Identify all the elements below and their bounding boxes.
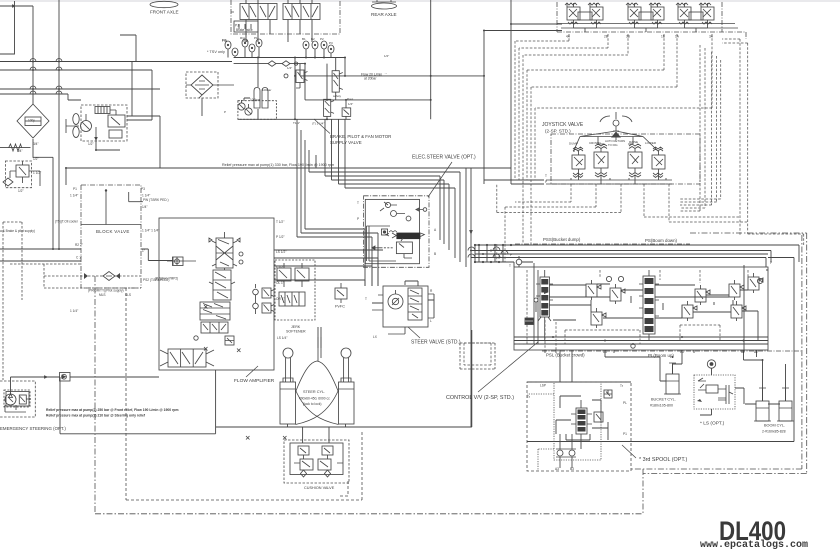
- wire filter drop: [120, 35, 202, 116]
- bus wire y89: [0, 88, 160, 90]
- enclosure elec steer valve dash-dot: [364, 196, 429, 267]
- hose CV interior pilot dashed: [516, 270, 748, 350]
- control valve body outline: [514, 267, 768, 350]
- hose right long drops: [722, 39, 804, 245]
- svg-text:DUMP: DUMP: [569, 142, 578, 146]
- arrow on front axle wire: [12, 4, 17, 8]
- CV relief valve at 731,305: [731, 305, 742, 318]
- enclosure outer dash-dot B bottom: [95, 276, 643, 514]
- CV relief valve at 729,284: [729, 284, 740, 297]
- brake valve block right: [283, 4, 320, 20]
- wire pilot bus y262: [475, 262, 514, 267]
- svg-text:2B: 2B: [604, 35, 608, 39]
- enclosure 3rd spool dashed: [527, 382, 631, 471]
- remote pilot valve pair at x=628: [626, 3, 664, 32]
- enclosure emergency steering dashed: [0, 381, 35, 417]
- svg-text:* TSV only: * TSV only: [207, 50, 225, 54]
- wire pilot bus y257.5: [471, 258, 766, 268]
- svg-text:LS 1/2": LS 1/2": [276, 250, 286, 254]
- hose left drop bundle to joystick bus: [515, 41, 535, 244]
- wire 3rd spool interior: [556, 390, 608, 449]
- bus wire y61.5: [0, 61, 232, 63]
- elec steer lower box: [396, 242, 412, 254]
- flow amp priority spool: [216, 238, 233, 268]
- svg-text:at 20bar: at 20bar: [364, 77, 377, 81]
- wire filter to orifice y147.6: [0, 139, 53, 249]
- leader steer valve std label: [408, 327, 420, 338]
- CV relief valve at 586,284: [586, 284, 597, 297]
- svg-text:CROWD: CROWD: [589, 141, 601, 145]
- svg-text:PSS(Bucket dump): PSS(Bucket dump): [543, 237, 581, 242]
- svg-text:OL 1": OL 1": [276, 281, 284, 285]
- joystick linkage bars: [574, 131, 657, 150]
- wire relief column: [327, 58, 346, 120]
- elec steer proportional spool dark: [396, 233, 420, 240]
- svg-text:FLOW AMPLIFIER: FLOW AMPLIFIER: [234, 378, 275, 384]
- wire aux line y366: [470, 366, 627, 382]
- svg-text:FRONT AXLE: FRONT AXLE: [150, 10, 179, 15]
- svg-text:F/A: F/A: [222, 38, 227, 42]
- svg-text:3/4": 3/4": [33, 142, 39, 146]
- svg-text:1": 1": [142, 249, 145, 253]
- svg-text:B2: B2: [741, 350, 745, 354]
- joystick handle: [600, 112, 632, 122]
- svg-text:STEER CYL.: STEER CYL.: [303, 390, 325, 394]
- bucket cylinder: [666, 374, 679, 394]
- LS opt valve: [707, 360, 715, 368]
- svg-text:A2: A2: [754, 350, 758, 354]
- enclosure LS opt dotted: [694, 375, 735, 409]
- arrow emergency line: [44, 375, 49, 379]
- CV inlet circles: [516, 259, 522, 265]
- junction dots main buses: [32, 23, 764, 382]
- emergency steering pump: [5, 394, 16, 405]
- elec steer valve internals: [365, 199, 419, 263]
- svg-text:CUSHION VALVE: CUSHION VALVE: [304, 486, 335, 490]
- svg-text:#90x60-450, 6000 cc: #90x60-450, 6000 cc: [299, 397, 330, 401]
- flow amp second spool: [213, 270, 231, 300]
- leader flow amplifier label: [246, 366, 258, 377]
- wire front-axle supply top-left: [0, 1, 33, 104]
- hose PSS verticals: [497, 244, 505, 262]
- CV relief valve at 695,289: [695, 289, 706, 302]
- svg-text:P: P: [770, 261, 772, 265]
- hose remote valve port drops: [515, 34, 712, 108]
- svg-text:BOOM CYL.: BOOM CYL.: [764, 424, 785, 428]
- cushion valve body: [290, 443, 343, 475]
- DB pilot relief: [296, 70, 304, 83]
- wire vertical x59: [58, 0, 60, 249]
- svg-text:1/2": 1/2": [18, 189, 24, 193]
- main suction filter diamond: [17, 104, 49, 138]
- enclosure fan motor dashed: [81, 105, 127, 141]
- svg-text:3B: 3B: [626, 35, 630, 39]
- wire P supply right: [768, 258, 794, 442]
- svg-text:T: T: [509, 264, 511, 268]
- steer cylinder left: [283, 348, 293, 358]
- svg-text:100bar: 100bar: [262, 88, 271, 92]
- wire y168 relief line long: [66, 168, 511, 185]
- wire brake check line y63.6: [234, 63, 305, 65]
- wire bus drops left: [471, 245, 503, 262]
- hose CV dashed inner left: [464, 343, 491, 365]
- safety relief valve: [332, 71, 339, 92]
- svg-text:R/A: R/A: [240, 36, 245, 40]
- wire bottom return y119.3: [238, 0, 431, 119]
- enclosure filter dashed box: [186, 72, 218, 98]
- enclosure PSS dash-dot label line: [515, 243, 690, 245]
- enclosure left pilot filter dashed: [5, 161, 31, 188]
- wire loop x132 down to fan: [127, 62, 160, 169]
- wire accumulator drop: [244, 58, 258, 120]
- svg-text:→: →: [384, 71, 387, 75]
- flow amp lower stack 1: [200, 302, 230, 320]
- block valve lower dashed links: [10, 264, 141, 288]
- svg-text:CONTROL V/V (2-SP, STD.): CONTROL V/V (2-SP, STD.): [446, 395, 514, 401]
- svg-text:BUCKET CYL.: BUCKET CYL.: [651, 398, 676, 402]
- leader elec steer valve label: [428, 162, 452, 197]
- svg-text:R2 2": R2 2": [75, 243, 83, 247]
- svg-text:Relief pressure max at pump(1): Relief pressure max at pump(1) 330 bar, …: [222, 163, 334, 167]
- wire boom cyl feed: [744, 350, 786, 404]
- CV main spool 1: [540, 277, 550, 317]
- CV spool1 pilot arrows: [544, 291, 548, 300]
- svg-text:JOYSTICK VALVE: JOYSTICK VALVE: [542, 122, 584, 128]
- svg-text:A1: A1: [680, 350, 684, 354]
- steering linkage arcs: [296, 361, 339, 392]
- svg-text:PvFC: PvFC: [335, 304, 345, 309]
- svg-text:P: P: [545, 180, 547, 184]
- flow amp 4/3 dir valve: [168, 349, 206, 367]
- rear axle symbol: [372, 3, 397, 9]
- brake valve block left: [240, 4, 277, 20]
- svg-text:JERK: JERK: [291, 325, 301, 329]
- svg-text:SOFTENER: SOFTENER: [286, 330, 306, 334]
- svg-text:Brake valve: Brake valve: [236, 28, 253, 32]
- enclosure joystick valve dash-dot: [551, 134, 700, 184]
- svg-text:B3: B3: [570, 467, 574, 471]
- svg-text:Relief pressure max at pump(2): Relief pressure max at pump(2) 250 bar @…: [46, 408, 178, 412]
- flow amp drain X marks: [204, 305, 287, 440]
- wire pilot bus y254: [475, 253, 768, 255]
- svg-text:T1 1": T1 1": [293, 121, 300, 125]
- filter pilot line: [191, 75, 213, 98]
- svg-text:#180x105-800: #180x105-800: [650, 404, 673, 408]
- wire bucket cyl feed: [605, 350, 682, 381]
- steer valve std body: [383, 286, 428, 327]
- svg-text:P1: P1: [254, 36, 258, 40]
- wire nested loop bundle to elec steer valve: [325, 119, 471, 267]
- enclosure cushion valve dashed: [284, 440, 349, 483]
- flow amp small bits: [167, 257, 196, 265]
- svg-text:L: L: [430, 319, 432, 323]
- wire steer valve cross links: [372, 281, 434, 318]
- remote pilot valve pair at x=678: [676, 3, 714, 32]
- svg-text:B2: B2: [311, 37, 315, 41]
- junction dots pilot bus: [478, 244, 480, 246]
- page top grey edge: [0, 0, 840, 2]
- svg-text:1 1/4": 1 1/4": [70, 309, 78, 313]
- svg-text:B1: B1: [302, 37, 306, 41]
- svg-text:2-#160x85-828: 2-#160x85-828: [762, 430, 786, 434]
- svg-text:A3: A3: [555, 467, 559, 471]
- wire brake supply bus y57: [234, 57, 345, 59]
- wire steer valve down to cylinders: [318, 327, 321, 348]
- svg-text:T: T: [357, 201, 359, 205]
- jerk softener valves: [277, 268, 291, 281]
- wire brake valve stubs: [246, 0, 312, 42]
- enclosure right dash-dot column: [631, 233, 807, 514]
- boom cylinder 2: [779, 401, 792, 421]
- arrow x471: [469, 230, 473, 235]
- wire CV bottom buses: [514, 337, 768, 344]
- leader 3rd spool label: [622, 445, 636, 458]
- svg-text:T 1/2": T 1/2": [276, 220, 284, 224]
- 3rd spool main spool: [576, 408, 587, 434]
- svg-text:PL(Boom up): PL(Boom up): [648, 353, 674, 358]
- steer cylinder right: [341, 348, 351, 358]
- svg-text:PW (T.BRK PED.): PW (T.BRK PED.): [143, 198, 169, 202]
- svg-text:REAR AXLE: REAR AXLE: [371, 12, 397, 17]
- CV relief valve at 610,288: [610, 288, 621, 301]
- enclosure steering system dashed A: [126, 288, 362, 500]
- svg-text:T: T: [545, 174, 547, 178]
- wire LS opt link: [700, 368, 744, 415]
- orifice restrictor: [9, 144, 22, 151]
- svg-text:PS2 (T.BRKPED2): PS2 (T.BRKPED2): [143, 278, 169, 282]
- wire emergency steering line y377: [11, 377, 160, 395]
- C1 C2 small circles: [284, 74, 288, 78]
- svg-text:1/4": 1/4": [287, 66, 292, 70]
- svg-text:(2-SP. STD.): (2-SP. STD.): [545, 129, 571, 134]
- crossover hops left buses: [30, 59, 62, 95]
- svg-text:SLS: SLS: [125, 293, 131, 297]
- wire pilot bus y250.5: [471, 251, 771, 263]
- wire big outline bottom y441.5: [527, 441, 794, 443]
- hose joystick outputs down: [497, 184, 747, 244]
- wire flow20 line y75.9: [300, 58, 484, 76]
- wire flow amp to steer valve links: [274, 250, 383, 286]
- svg-text:1 1/4": 1 1/4": [142, 194, 150, 198]
- svg-text:1 1/4": 1 1/4": [70, 194, 78, 198]
- svg-text:BLOCK VALVE: BLOCK VALVE: [96, 229, 130, 234]
- PvFC valve: [335, 288, 347, 299]
- svg-text:1 1/4" 1 1/4": 1 1/4" 1 1/4": [142, 229, 159, 233]
- check valve inline 2: [173, 257, 184, 266]
- svg-text:Relief pressure max at pump(2): Relief pressure max at pump(2) 210 bar @…: [46, 414, 146, 418]
- svg-text:1/2": 1/2": [88, 142, 94, 146]
- svg-text:P.B: P.B: [235, 24, 240, 28]
- leader control vv label: [478, 342, 538, 392]
- wire pilot bus y245: [475, 245, 799, 262]
- enclosure brake valve dash-dot: [231, 0, 340, 34]
- svg-text:P: P: [510, 253, 512, 257]
- svg-text:1/2": 1/2": [384, 54, 389, 58]
- check valve inline: [60, 373, 71, 382]
- joystick reducing valve DUMP: [572, 147, 585, 178]
- pressure gauges row: [225, 41, 231, 49]
- svg-text:PL: PL: [623, 401, 627, 405]
- svg-text:* LS (OPT.): * LS (OPT.): [700, 421, 725, 427]
- wire pout line y99.9: [305, 64, 431, 100]
- svg-text:P3: P3: [329, 41, 333, 45]
- svg-text:P1: P1: [623, 432, 627, 436]
- svg-text:1/4": 1/4": [142, 205, 148, 209]
- svg-text:P: P: [224, 110, 226, 114]
- svg-text:safety: safety: [333, 94, 342, 98]
- svg-text:(lock to lock): (lock to lock): [303, 402, 322, 406]
- svg-text:Pout: Pout: [347, 97, 353, 101]
- flow amp lower stack 2: [201, 322, 228, 333]
- enclosure PSL dash-dot to right column: [542, 350, 801, 352]
- svg-text:(T5)(T.Oil cooler: (T5)(T.Oil cooler: [55, 220, 79, 224]
- svg-text:OR 1": OR 1": [276, 297, 285, 301]
- remote valve bus lines: [557, 3, 738, 28]
- svg-text:100μ: 100μ: [28, 119, 35, 123]
- svg-text:1/4": 1/4": [348, 102, 353, 106]
- joystick reducing valve RAISE: [628, 144, 642, 177]
- boom cylinder 1: [756, 401, 769, 421]
- elec steer right port marks: [416, 208, 427, 212]
- enclosure block valve dash-dot: [81, 185, 141, 288]
- svg-text:1 1/2": 1 1/2": [33, 171, 41, 175]
- joystick reducing valve CROWD: [594, 144, 608, 177]
- svg-text:L 1/2": L 1/2": [276, 265, 284, 269]
- svg-text:B: B: [434, 252, 436, 256]
- bus wire y70: [0, 69, 152, 71]
- svg-text:SUPPLY VALVE: SUPPLY VALVE: [330, 140, 362, 145]
- accumulator pair: [254, 88, 268, 109]
- svg-text:P: P: [357, 217, 359, 221]
- svg-text:P3: P3: [141, 187, 145, 191]
- flow amplifier body: [159, 218, 274, 370]
- check valve symbol below block valve: [103, 272, 115, 281]
- joystick reducing valve LOWER: [652, 147, 665, 178]
- wire gauge stems: [228, 47, 331, 58]
- enclosure 3rd spool inner dotted: [527, 383, 601, 471]
- wire block valve right exit: [141, 249, 173, 261]
- svg-text:B1: B1: [603, 350, 607, 354]
- pilot relief valve left: [16, 165, 29, 177]
- svg-text:PSL (Bucket crowd): PSL (Bucket crowd): [546, 353, 585, 358]
- svg-text:1/2": 1/2": [33, 157, 39, 161]
- svg-text:LS 1/4": LS 1/4": [277, 336, 287, 340]
- wire steer cyl bus y427: [216, 330, 472, 427]
- aux valve small: [342, 108, 351, 117]
- svg-text:ELEC.STEER VALVE (OPT.): ELEC.STEER VALVE (OPT.): [412, 155, 476, 161]
- front axle symbol: [150, 1, 178, 7]
- svg-text:TO DIG: TO DIG: [608, 143, 618, 147]
- svg-text:3/4": 3/4": [17, 149, 23, 153]
- svg-text:P2: P2: [320, 37, 324, 41]
- wire 3rd spool links: [527, 350, 631, 382]
- svg-text:P1: P1: [73, 187, 77, 191]
- block valve inner structure: [81, 191, 143, 225]
- CV relief valve at 591,312: [591, 312, 602, 325]
- svg-text:STEER VALVE (STD.): STEER VALVE (STD.): [411, 340, 461, 346]
- enclosure steer dashed right edge: [460, 343, 495, 369]
- wire fan bottom drop: [96, 141, 120, 150]
- svg-text:(T) 1 1/4": (T) 1 1/4": [312, 122, 324, 126]
- wire T feed to pilot valves y24: [511, 0, 562, 184]
- wire loop bundle left drops: [297, 119, 460, 286]
- svg-text:100bar: 100bar: [250, 98, 261, 102]
- svg-text:(PRIORITY)(Pilot supply): (PRIORITY)(Pilot supply): [88, 289, 124, 293]
- svg-text:PS(Boom down): PS(Boom down): [645, 238, 678, 243]
- remote pilot valve pair at x=567: [565, 3, 603, 32]
- enclosure remote valve dash-dot: [557, 2, 746, 39]
- wire loop x152 down to fan: [127, 70, 152, 120]
- wire LS long line y376: [432, 376, 620, 382]
- svg-text:C 1": C 1": [76, 256, 82, 260]
- wire lower bus y433.8: [60, 377, 216, 434]
- svg-text:T: T: [365, 297, 367, 301]
- CV relief valve at 682,305: [682, 305, 693, 318]
- wire cushion risers: [288, 424, 346, 443]
- svg-text:LOWER: LOWER: [645, 141, 657, 145]
- svg-text:MLS: MLS: [99, 293, 106, 297]
- p.b brake box: [234, 21, 258, 32]
- svg-text:a & Brake & pilot supply): a & Brake & pilot supply): [0, 229, 35, 233]
- bus wire y94: [0, 94, 81, 100]
- wire block valve left ports: [0, 249, 81, 261]
- wire joystick T P entry: [484, 180, 544, 184]
- svg-text:EMERGENCY STEERING (OPT.): EMERGENCY STEERING (OPT.): [0, 426, 66, 431]
- fan motor assembly: [73, 114, 79, 125]
- elec steer arrow symbol: [372, 246, 381, 250]
- wire CV interior links: [519, 262, 768, 350]
- CV relief valve at 748,277: [748, 277, 759, 290]
- wire P feed to pilot valves y30.5: [484, 31, 562, 185]
- svg-text:RAISE: RAISE: [629, 140, 638, 144]
- leader brake supply label: [314, 119, 330, 134]
- wire long vertical x471: [470, 186, 472, 427]
- enclosure left edge dashed column: [3, 222, 22, 380]
- svg-text:BRAKE, PILOT & FAN MOTOR: BRAKE, PILOT & FAN MOTOR: [330, 134, 391, 139]
- inline check diamonds: [268, 61, 290, 67]
- svg-text:www.epcatalogs.com: www.epcatalogs.com: [700, 539, 808, 551]
- svg-text:1B: 1B: [661, 35, 665, 39]
- svg-text:P 1/2": P 1/2": [276, 235, 285, 239]
- flow amp right side check circles: [253, 289, 259, 295]
- svg-text:* 3rd SPOOL (OPT.): * 3rd SPOOL (OPT.): [639, 457, 688, 463]
- hose remote right bundle: [680, 45, 721, 211]
- joystick TP bus: [546, 172, 672, 184]
- svg-text:LSP: LSP: [540, 384, 546, 388]
- solenoid valve: [324, 99, 331, 116]
- pump unit circles: [238, 103, 245, 110]
